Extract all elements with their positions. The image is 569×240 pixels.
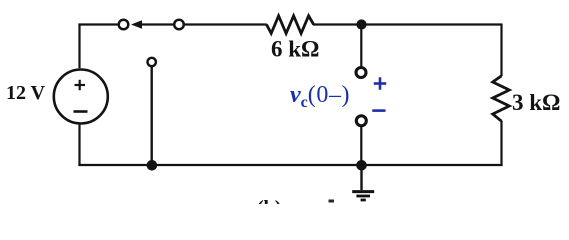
wire left branch vertical top (source to top rail) [78, 24, 80, 69]
junction node at top of capacitor branch [356, 19, 366, 29]
ground stem wire [360, 165, 362, 190]
svg-text:3 kΩ: 3 kΩ [512, 90, 560, 115]
right branch wire lower [500, 121, 502, 166]
cut-off glyph fragment right of caption [329, 200, 335, 203]
switch blade arrowhead [131, 20, 142, 29]
caption (b) partially cut off [257, 197, 281, 219]
wire left branch vertical bottom [78, 125, 80, 166]
node label vc(0-) [290, 82, 350, 111]
svg-text:vc(0–): vc(0–) [290, 82, 350, 111]
switch contact circle (left, closed position) [119, 20, 129, 30]
capacitor terminal circle plus [356, 68, 366, 78]
resistor R 6 kOhm [267, 16, 314, 34]
wire top rail left segment [78, 23, 117, 25]
bottom rail wire [78, 164, 502, 166]
value label 12 V [6, 82, 46, 104]
wire top rail middle segment [185, 23, 267, 25]
voltage source V1 12 V [54, 70, 108, 124]
switch throw terminal circle (middle branch) [148, 58, 156, 66]
resistor R 3 kOhm [493, 76, 510, 121]
right branch wire upper [500, 24, 502, 77]
voltage source plus mark [75, 80, 86, 90]
junction node middle branch bottom [147, 160, 158, 171]
switch pivot circle (right) [174, 20, 184, 30]
wire capacitor branch lower [360, 127, 362, 165]
value label 6 kOhm [271, 37, 319, 62]
svg-text:(b): (b) [257, 197, 281, 204]
voltage source minus mark [74, 110, 88, 113]
svg-text:12 V: 12 V [6, 82, 46, 104]
value label 3 kOhm [512, 90, 560, 115]
svg-text:6 kΩ: 6 kΩ [271, 37, 319, 62]
junction node at bottom of capacitor branch [356, 160, 367, 171]
wire top rail right segment [313, 23, 502, 25]
polarity minus sign (blue) [372, 109, 385, 112]
wire capacitor branch upper [360, 25, 362, 67]
ground symbol [352, 192, 374, 200]
capacitor terminal circle minus [356, 116, 366, 126]
wire middle branch vertical [150, 66, 152, 165]
switch blade wire [142, 23, 174, 25]
polarity plus sign (blue) [374, 77, 386, 89]
